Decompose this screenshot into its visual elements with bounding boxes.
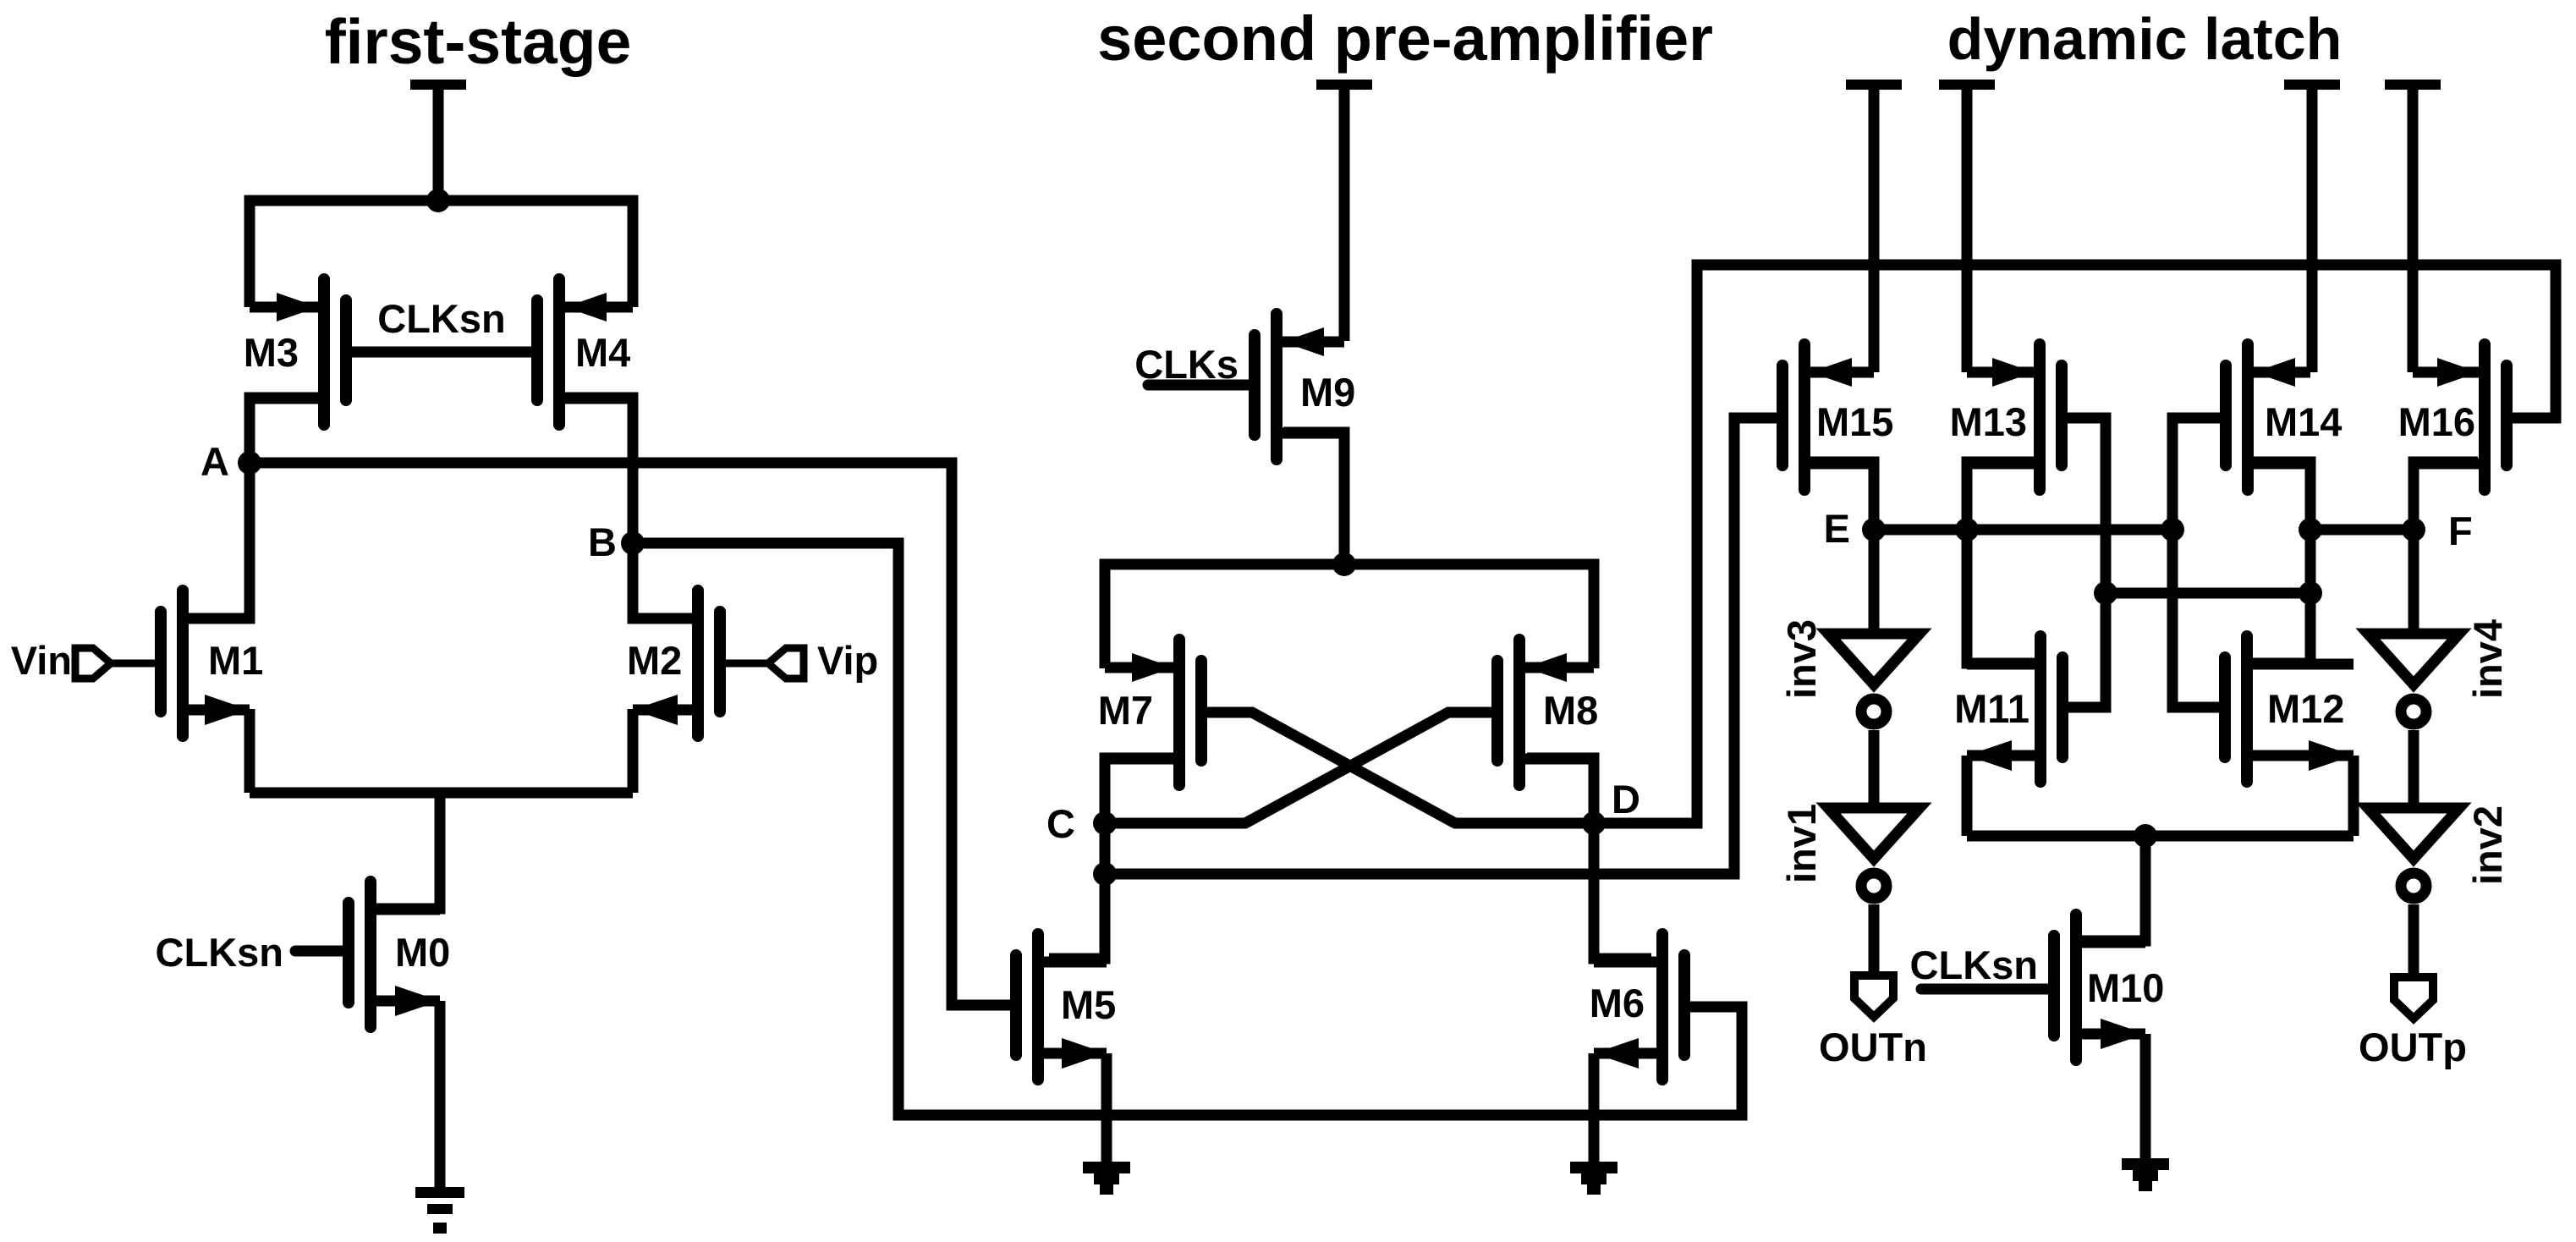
wire inv4 to inv2 (2408, 730, 2419, 808)
wire M12 source down (2348, 756, 2359, 836)
wire node F to inv4 (2408, 530, 2419, 634)
node E (1862, 518, 1886, 541)
svg-text:M15: M15 (1816, 399, 1893, 444)
svg-text:A: A (200, 439, 229, 484)
transistor M8 (1513, 640, 1525, 785)
transistor M9 (1271, 314, 1283, 459)
ground (M0) (415, 1187, 464, 1198)
inverter inv4 (2368, 634, 2459, 684)
node D (1582, 811, 1606, 835)
svg-text:CLKs: CLKs (1134, 342, 1239, 387)
wire tail rail to M0 drain (376, 793, 440, 909)
wire cross rail F (2106, 588, 2310, 599)
junction dot latch tail (2134, 824, 2157, 848)
wire inv2 to OUTp pin (2408, 904, 2419, 977)
wire M14 drain to F rail to M12 drain (2253, 462, 2310, 663)
wire node A to M5 gate (250, 463, 1010, 1005)
transistor M1 (177, 591, 189, 736)
transistor M14 (2242, 344, 2254, 490)
svg-text:inv2: inv2 (2465, 805, 2510, 885)
ground (M10) (2122, 1158, 2169, 1170)
junction dot M13 drain on E rail (1955, 518, 1979, 541)
wire M11 source down (1962, 756, 1973, 836)
ground (M5) (1083, 1162, 1130, 1173)
svg-text:inv4: inv4 (2465, 619, 2510, 699)
svg-text:M0: M0 (395, 930, 450, 975)
svg-text:M6: M6 (1590, 981, 1645, 1025)
wire M14 gate to E rail to M12 gate (2172, 418, 2226, 707)
svg-text:B: B (588, 519, 617, 564)
svg-text:M4: M4 (575, 330, 630, 375)
transistor M0 (365, 882, 376, 1027)
input pin Vip (768, 648, 804, 679)
wire M10 source to ground (2140, 1034, 2151, 1158)
wire M4 drain to node B to M2 drain (563, 398, 704, 618)
transistor M16 (2479, 344, 2491, 490)
wire tail rail first stage (250, 788, 633, 799)
wire M5 source to ground (1101, 1053, 1112, 1162)
wire M2 gate to Vip (720, 660, 768, 668)
node A (238, 451, 261, 475)
output pin OUTp (2394, 977, 2433, 1019)
wire M7 drain to node C to M5 drain (1049, 758, 1173, 959)
svg-text:dynamic latch: dynamic latch (1947, 6, 2343, 72)
inverter inv3 (1828, 634, 1920, 684)
svg-text:Vin: Vin (11, 638, 72, 683)
wire M13 gate to cross rail to M11 gate (2062, 418, 2106, 707)
wire M8 gate cross-coupled to node C (1105, 712, 1499, 823)
node C lower junction (1093, 862, 1117, 886)
wire CLKs lead to M9 gate (1148, 380, 1255, 391)
wire inv1 to OUTn pin (1869, 904, 1880, 975)
svg-text:M3: M3 (244, 330, 299, 375)
VDD supply T-bar (M16) (2385, 80, 2441, 90)
inverter inv2 (2368, 808, 2459, 859)
wire top rail M3-M4 (250, 201, 633, 307)
wire latch tail rail (1967, 831, 2354, 842)
svg-text:D: D (1612, 777, 1640, 822)
junction dot M13/M11 gate on cross rail (2094, 581, 2117, 605)
transistor M5 (1032, 934, 1044, 1080)
wire F rail (2310, 525, 2414, 536)
svg-text:M14: M14 (2265, 399, 2342, 444)
svg-text:M2: M2 (627, 638, 682, 683)
input pin Vin (75, 648, 111, 679)
junction dot M14 drain on F rail (2299, 518, 2322, 541)
node C (1093, 811, 1117, 835)
svg-text:Vip: Vip (817, 638, 878, 683)
svg-text:M11: M11 (1954, 686, 2029, 731)
wire node C to M15 gate (1105, 418, 1777, 874)
transistor M11 (2035, 636, 2046, 782)
svg-text:CLKsn: CLKsn (377, 296, 505, 341)
transistor M2 (692, 591, 704, 736)
wire M8 drain to node D to M6 drain (1527, 758, 1651, 959)
wire M9 drain to rail (1283, 432, 1344, 564)
wire source rail M7-M8 (1105, 564, 1594, 668)
svg-text:M1: M1 (208, 638, 263, 683)
svg-text:CLKsn: CLKsn (1910, 942, 2038, 987)
junction dot F vertical at cross rail (2299, 581, 2322, 605)
wire CLKsn lead to M10 gate (1921, 984, 2054, 995)
wire M13 drain to E rail to M11 drain (1967, 462, 2035, 663)
VDD supply T-bar (M14) (2284, 80, 2340, 90)
wire CLKsn lead to M0 gate (295, 946, 349, 957)
wire Vin to M1 gate (111, 660, 161, 668)
inverter inv1 (1828, 808, 1920, 859)
svg-text:M10: M10 (2087, 965, 2164, 1010)
svg-text:M9: M9 (1300, 370, 1355, 415)
svg-text:M5: M5 (1061, 982, 1116, 1027)
VDD supply T-bar (M15) (1846, 80, 1902, 90)
output pin OUTn (1854, 975, 1893, 1017)
wire inv3 to inv1 (1869, 730, 1880, 808)
transistor M4 (553, 279, 565, 425)
wire node B to M6 gate (633, 543, 1742, 1115)
svg-text:M12: M12 (2267, 686, 2344, 731)
junction dot VDD rail (426, 189, 450, 212)
VDD supply T-bar (M9) (1316, 80, 1372, 90)
svg-text:M7: M7 (1098, 688, 1153, 733)
wire gate link M3-M4 (346, 347, 537, 358)
VDD supply T-bar (first stage) (410, 80, 466, 90)
wire tail to M10 drain (2082, 836, 2145, 941)
transistor M3 (318, 279, 330, 425)
transistor M15 (1799, 344, 1810, 490)
svg-text:inv1: inv1 (1779, 804, 1824, 883)
junction dot M14/M12 gate on E rail (2161, 518, 2184, 541)
wire M16 drain to node F (2414, 462, 2478, 530)
svg-text:first-stage: first-stage (325, 6, 632, 77)
svg-text:inv3: inv3 (1779, 619, 1824, 699)
node F (2402, 518, 2425, 541)
svg-text:CLKsn: CLKsn (156, 930, 283, 975)
node B (621, 531, 645, 555)
transistor M10 (2070, 915, 2082, 1060)
wire M2 source down (628, 709, 639, 793)
svg-text:OUTp: OUTp (2359, 1025, 2467, 1069)
wire node D to top rail to M16 gate (1594, 265, 2556, 823)
svg-text:M16: M16 (2398, 399, 2475, 444)
transistor M13 (2034, 344, 2046, 490)
wire M7 gate cross-coupled to node D (1201, 712, 1594, 823)
wire M15 drain to node E (1810, 462, 1874, 530)
svg-text:OUTn: OUTn (1819, 1025, 1927, 1069)
junction dot M9 drain on rail (1332, 552, 1356, 576)
svg-text:E: E (1824, 506, 1850, 551)
svg-text:C: C (1046, 801, 1075, 846)
svg-text:F: F (2448, 508, 2473, 553)
svg-text:M13: M13 (1950, 399, 2027, 444)
wire M3 drain to node A to M1 drain (190, 398, 319, 618)
transistor M6 (1656, 934, 1668, 1080)
wire M1 source down (244, 709, 255, 793)
transistor M7 (1173, 640, 1185, 785)
svg-text:second pre-amplifier: second pre-amplifier (1097, 3, 1713, 74)
wire node E to inv3 (1869, 530, 1880, 634)
transistor M12 (2241, 636, 2253, 782)
VDD supply T-bar (M13) (1939, 80, 1995, 90)
wire M6 source to ground (1589, 1053, 1600, 1162)
ground (M6) (1570, 1162, 1618, 1173)
wire M0 source to ground (435, 1001, 446, 1187)
svg-text:M8: M8 (1543, 688, 1598, 733)
wire E rail (1874, 525, 2172, 536)
